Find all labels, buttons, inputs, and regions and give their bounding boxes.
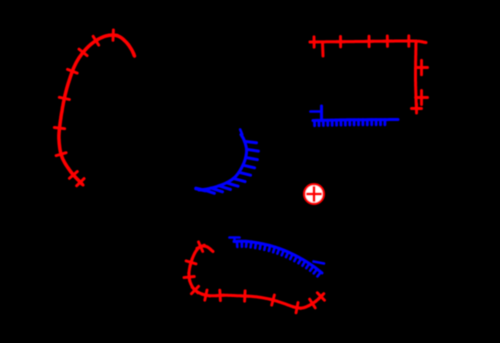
plus-sign ticks on bottom loop contour (184, 242, 325, 313)
end tick at top of blue L-shape (311, 110, 321, 113)
negative contour: lower blue curve (234, 241, 322, 273)
end dash at lower-left end of middle blue arc (196, 189, 205, 191)
negative contour: blue L-shape, short vertical part (320, 106, 323, 121)
negative contour: blue L-shape, horizontal part (313, 120, 398, 121)
plus-sign ticks on left lobe contour (54, 30, 117, 186)
long hachures on middle blue arc (pointing right) (203, 141, 258, 193)
right-pointing dash near right end of lower blue curve (314, 262, 325, 264)
short hachures under lower blue curve (237, 241, 321, 276)
plus-sign ticks on top-right horizontal contour (310, 36, 413, 47)
small downward stub near left end of top-right contour (321, 42, 325, 56)
positive contour: top-right right-angle segment, vertical part (416, 41, 417, 110)
positive contour: large left lobe (59, 35, 135, 184)
plus-sign ticks on top-right vertical contour (412, 60, 428, 113)
hachures under blue L-shape horizontal part (315, 120, 385, 126)
circled-plus marker (positive center) (304, 184, 324, 204)
end tick at left end of lower blue curve (230, 238, 240, 242)
negative contour: middle blue arc (199, 135, 247, 191)
positive contour: top-right right-angle segment, horizontal part (310, 41, 426, 43)
end tick at top of middle blue arc (240, 130, 242, 135)
positive contour: bottom loop (189, 246, 322, 308)
